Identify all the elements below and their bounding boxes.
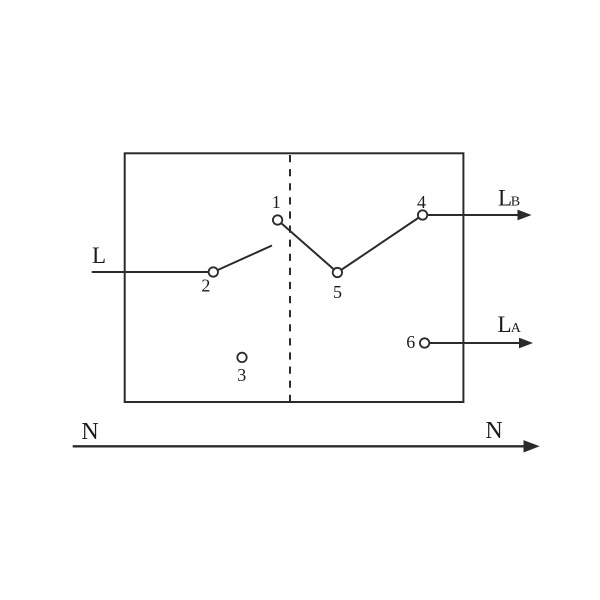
svg-text:2: 2: [201, 276, 210, 296]
svg-text:1: 1: [272, 192, 281, 212]
svg-text:A: A: [511, 321, 522, 336]
svg-text:5: 5: [333, 282, 342, 302]
svg-text:N: N: [81, 419, 98, 445]
svg-text:3: 3: [237, 365, 246, 385]
svg-text:4: 4: [417, 192, 426, 212]
svg-text:N: N: [485, 418, 502, 444]
svg-text:L: L: [92, 243, 106, 268]
svg-text:6: 6: [406, 332, 415, 352]
svg-text:L: L: [498, 312, 512, 337]
svg-text:B: B: [511, 195, 520, 210]
